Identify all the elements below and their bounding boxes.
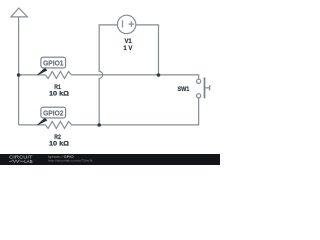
svg-text:LAB: LAB: [24, 159, 32, 164]
V1 minus bar: [122, 20, 124, 27]
svg-text:1 V: 1 V: [123, 45, 133, 52]
footer watermark bar: [0, 154, 220, 165]
svg-text:GPIO2: GPIO2: [43, 108, 63, 117]
resistor R2: [45, 121, 71, 128]
wire: V1 right lead down to R1 row: [136, 25, 159, 75]
CircuitLab logo resistor zigzag: [9, 160, 24, 163]
V1 plus sign: [129, 21, 135, 27]
voltage source V1: [117, 15, 135, 33]
svg-text:SW1: SW1: [177, 86, 189, 93]
svg-text:V1: V1: [124, 38, 132, 45]
node A: junction dot left rail / R1 row: [17, 73, 21, 77]
switch SW1 button cap: [209, 85, 211, 90]
node C: junction dot V1 left lead / R2 row: [97, 123, 101, 127]
resistor R1: [45, 71, 71, 78]
switch SW1 terminal circle bottom: [197, 94, 201, 98]
wire: R2 row left segment: [19, 124, 46, 126]
wire: V1 left lead with hop over R1 row: [99, 25, 117, 125]
svg-text:10 kΩ: 10 kΩ: [49, 90, 70, 97]
svg-text:10 kΩ: 10 kΩ: [49, 140, 70, 147]
switch SW1 stem: [205, 87, 210, 89]
wire: left rail from arrow down to R2 row: [18, 17, 20, 125]
GPIO2 flag tail: [37, 118, 47, 126]
switch SW1 terminal circle top: [197, 79, 201, 83]
GPIO2 flag box: [41, 107, 66, 118]
switch SW1 actuator bar: [204, 77, 206, 98]
wire: R1 row right segment to switch: [71, 75, 198, 79]
GPIO1 flag box: [41, 57, 66, 68]
power arrow VCC symbol: [11, 8, 27, 17]
svg-text:http://circuitlab.com/c/72he3k: http://circuitlab.com/c/72he3k: [48, 158, 93, 162]
node B: junction dot V1 right lead / R1 row: [157, 73, 161, 77]
svg-text:GPIO1: GPIO1: [43, 58, 63, 67]
wire: R2 row right segment to switch bottom: [71, 98, 198, 125]
GPIO1 flag tail: [37, 68, 47, 76]
wire: R1 row left segment: [19, 74, 46, 76]
